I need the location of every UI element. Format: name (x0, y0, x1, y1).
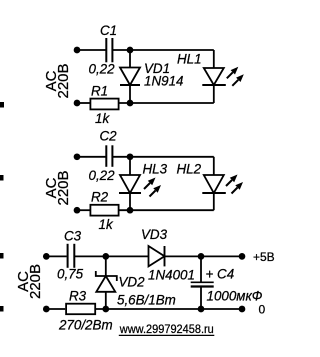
svg-text:0: 0 (259, 303, 266, 317)
node: circuit 3 junction VD2 bottom (102, 306, 109, 313)
wire: circuit 3 left edge tick top (0, 253, 4, 259)
resistor R1 (90, 99, 118, 110)
svg-text:R1: R1 (91, 84, 108, 99)
wire: circuit 3 top wire left segment (46, 255, 67, 257)
resistor R3 (66, 304, 95, 315)
svg-text:HL2: HL2 (177, 162, 202, 177)
svg-text:220В: 220В (27, 264, 44, 299)
svg-text:+5В: +5В (253, 250, 275, 264)
svg-text:1N914: 1N914 (144, 74, 183, 89)
svg-text:VD3: VD3 (141, 227, 168, 242)
capacitor C3 (68, 244, 75, 268)
LED HL1 arrows (227, 67, 244, 86)
svg-text:1N4001: 1N4001 (148, 268, 195, 283)
node: circuit 3 junction C4 top (198, 253, 205, 260)
svg-text:R3: R3 (69, 289, 87, 304)
node: circuit 3 junction C4 bottom (198, 306, 205, 313)
svg-text:5,6В/1Вт: 5,6В/1Вт (117, 293, 176, 308)
wire: circuit 2 bottom wire right segment (120, 209, 214, 211)
svg-text:0,75: 0,75 (57, 267, 84, 282)
svg-text:0,22: 0,22 (89, 168, 116, 183)
zener diode VD2 (96, 256, 117, 309)
svg-text:HL3: HL3 (143, 162, 168, 177)
svg-text:C3: C3 (64, 229, 82, 244)
node: circuit 2 left top terminal (74, 153, 81, 160)
wire: circuit 2 top wire left segment (77, 156, 106, 158)
node: circuit 3 junction VD2 top (102, 253, 109, 260)
node: circuit 1 top junction (127, 47, 134, 54)
wire: circuit 1 top wire left segment (77, 49, 106, 51)
capacitor C2 (106, 145, 112, 167)
capacitor C4 electrolytic (191, 256, 214, 309)
svg-text:0,22: 0,22 (89, 62, 116, 77)
node: circuit 1 left bottom terminal (74, 100, 81, 107)
svg-text:1k: 1k (95, 111, 110, 126)
LED HL3 arrows (144, 178, 161, 197)
svg-text:C1: C1 (100, 23, 117, 38)
wire: circuit 2 bottom wire left stub (77, 209, 90, 211)
node: circuit 3 left top terminal (43, 253, 50, 260)
wire: circuit 1 bottom wire left stub (77, 102, 90, 104)
node: circuit 2 top junction (127, 153, 134, 160)
label AC 220V circuit 2 (43, 170, 72, 205)
svg-text:HL1: HL1 (177, 52, 202, 67)
resistor R2 (90, 205, 118, 216)
svg-text:R2: R2 (91, 190, 109, 205)
wire: circuit 2 left edge tick (0, 175, 4, 181)
wire: circuit 1 left edge tick (0, 102, 4, 108)
wire: circuit 1 bottom wire right segment (120, 102, 214, 104)
svg-text:1000мкФ: 1000мкФ (207, 289, 263, 304)
svg-text:VD2: VD2 (119, 275, 146, 290)
node: circuit 3 left bottom terminal (43, 306, 50, 313)
label AC 220V circuit 1 (43, 63, 72, 98)
svg-text:220В: 220В (55, 170, 72, 205)
wire: circuit 3 top wire right segment (165, 255, 243, 257)
svg-text:270/2Вт: 270/2Вт (58, 318, 113, 333)
svg-text:220В: 220В (55, 63, 72, 98)
svg-text:1k: 1k (99, 217, 114, 232)
svg-text:+ C4: + C4 (206, 267, 235, 282)
label website underline (119, 334, 215, 336)
wire: circuit 1 top wire right segment (113, 49, 214, 51)
capacitor C1 (106, 38, 112, 62)
wire: circuit 3 left edge tick bottom (0, 306, 4, 312)
wire: circuit 3 top wire middle segment (75, 255, 149, 257)
LED HL2 (202, 157, 226, 210)
wire: circuit 3 bottom wire left stub (46, 308, 65, 310)
node: circuit 2 left bottom terminal (74, 207, 81, 214)
svg-text:C2: C2 (100, 129, 118, 144)
node: circuit 3 right bottom terminal (239, 306, 246, 313)
LED HL1 (202, 50, 226, 103)
LED HL2 arrows (226, 175, 243, 194)
diode VD1 (120, 50, 140, 103)
svg-text:www.299792458.ru: www.299792458.ru (119, 322, 214, 336)
diode VD3 (149, 246, 165, 266)
wire: circuit 3 bottom wire right segment (96, 308, 242, 310)
node: circuit 1 bottom junction (127, 100, 134, 107)
node: circuit 3 right top terminal (239, 253, 246, 260)
LED HL3 (119, 157, 141, 210)
node: circuit 1 left top terminal (74, 47, 81, 54)
label AC 220V circuit 3 (15, 264, 44, 299)
wire: circuit 2 top wire right segment (113, 156, 214, 158)
node: circuit 2 bottom junction (127, 207, 134, 214)
